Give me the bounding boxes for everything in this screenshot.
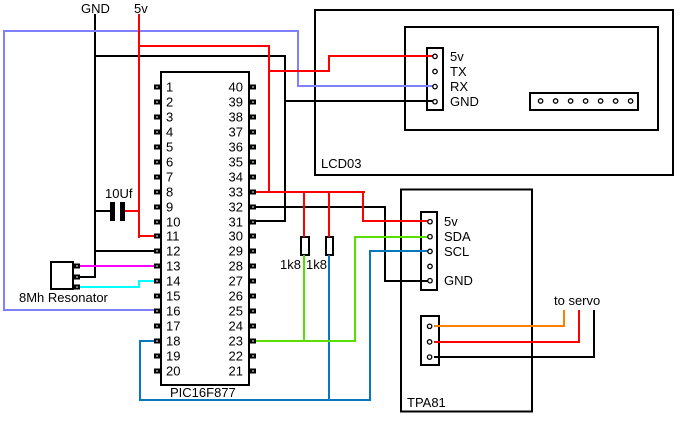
svg-text:3: 3 [166,110,173,125]
PIC pin 6 [155,161,159,164]
wire into TPA81 GND pin [384,280,430,282]
wire resonator pin 1 to PIC pin 13 magenta [79,265,154,267]
LCD03 expansion header holes [538,99,632,103]
PIC pin 12 [155,250,159,253]
wire blue vertical x370 [369,250,371,401]
svg-text:TX: TX [450,64,467,79]
PIC pin 27 [251,280,255,283]
svg-text:PIC16F877: PIC16F877 [170,385,236,400]
svg-text:28: 28 [229,259,243,274]
wire 5v horizontal y46 [138,45,270,47]
PIC pin 18 [155,340,159,343]
svg-text:10: 10 [166,215,180,230]
8Mh resonator X1 body [51,262,73,289]
wire servo connector pin 1 orange vertical riser [563,310,565,327]
TPA81 module box [401,190,532,412]
resonator pin 3 [75,286,79,289]
svg-text:5v: 5v [450,49,464,64]
wire green into TPA81 SDA pin [354,236,430,238]
wire 5v vertical rail from 5v label [138,14,140,238]
svg-text:32: 32 [229,200,243,215]
PIC pin 15 [155,295,159,298]
svg-text:11: 11 [166,229,180,244]
servo connector pin hole 3 [427,355,431,359]
wire 5v vertical x269 [268,45,270,193]
PIC pin 23 [251,340,255,343]
PIC pin 7 [155,176,159,179]
svg-text:17: 17 [166,319,180,334]
svg-text:SDA: SDA [444,229,471,244]
wire RX net vertical x298 [297,30,299,87]
wire RX net into LCD03 RX pin [297,85,434,87]
PIC16F877 chip body U1 [161,72,249,385]
TPA81 5-pin I2C connector [421,212,437,290]
wire PIC pin 32 to TPA81 GND vertical x385 [384,206,386,282]
svg-text:16: 16 [166,304,180,319]
wire resonator pin 3 cyan horizontal [79,286,140,288]
wire green vertical from resistor R1 x304 [303,255,305,342]
wire 5v into LCD03 5v pin [328,55,434,57]
svg-text:14: 14 [166,274,180,289]
wire servo connector pin 3 vertical riser [593,310,595,358]
wire GND to PIC pin 12 [94,250,154,252]
svg-text:18: 18 [166,334,180,349]
wire blue vertical from resistor R2 x329 [328,255,330,401]
resistor R1 1k8 body [301,237,309,255]
LCD03 connector pin hole RX [433,84,437,88]
wire green vertical x356 [354,236,356,342]
PIC pin 38 [251,116,255,119]
PIC pin 14 [155,280,159,283]
svg-text:35: 35 [229,155,243,170]
svg-text:24: 24 [229,319,243,334]
PIC pin 35 [251,161,255,164]
LCD03 board inner box [405,27,658,130]
svg-text:36: 36 [229,140,243,155]
PIC pin 30 [251,235,255,238]
wire 5v to PIC pin 11 [138,235,154,237]
svg-text:LCD03: LCD03 [321,156,361,171]
svg-text:30: 30 [229,229,243,244]
wire 5v vertical x363 [362,191,364,222]
svg-text:31: 31 [229,215,243,230]
wire GND to PIC pin 31 [250,220,286,222]
svg-text:SCL: SCL [444,244,469,259]
svg-text:8Mh Resonator: 8Mh Resonator [19,290,109,305]
LCD03 7-hole expansion header [530,93,638,110]
svg-text:GND: GND [81,1,110,16]
svg-text:2: 2 [166,95,173,110]
wire cyan into PIC pin 14 [138,280,154,282]
PIC pin 17 [155,325,159,328]
PIC pin 24 [251,325,255,328]
PIC pin 26 [251,295,255,298]
svg-text:12: 12 [166,244,180,259]
svg-text:9: 9 [166,200,173,215]
svg-text:25: 25 [229,304,243,319]
svg-text:39: 39 [229,95,243,110]
wire GND to LCD03 GND pin [284,100,434,102]
LCD03 connector pin hole TX [433,69,437,73]
resonator pin 2 [75,276,79,279]
svg-text:1k8: 1k8 [280,257,301,272]
wire blue into TPA81 SCL pin [369,250,430,252]
svg-text:TPA81: TPA81 [407,395,446,410]
wire RX net top horizontal y31 [3,30,299,32]
PIC pin 40 [251,86,255,89]
PIC pin 19 [155,355,159,358]
svg-text:GND: GND [444,273,473,288]
PIC pin 28 [251,265,255,268]
svg-text:GND: GND [450,94,479,109]
svg-text:34: 34 [229,170,243,185]
PIC pin 22 [251,355,255,358]
TPA81 connector pin hole SCL [428,249,432,253]
wire capacitor C1 to 5v rail [125,210,140,212]
wire blue vertical x140 [139,340,141,401]
svg-text:6: 6 [166,155,173,170]
svg-text:15: 15 [166,289,180,304]
PIC pin 31 [251,221,255,224]
wire GND branch vertical x285 [284,55,286,222]
PIC pin 11 [155,235,159,238]
TPA81 connector pin hole 5v [428,220,432,224]
wire cyan vertical step x139 [138,280,140,288]
LCD03 module outer box [315,10,673,175]
svg-text:5: 5 [166,140,173,155]
svg-text:20: 20 [166,364,180,379]
svg-text:29: 29 [229,244,243,259]
wire servo connector pin 2 horizontal [434,341,580,343]
PIC pin 29 [251,250,255,253]
svg-text:1: 1 [166,80,173,95]
LCD03 connector pin hole 5v [433,54,437,58]
svg-text:27: 27 [229,274,243,289]
wire GND horizontal rail y56 [94,55,286,57]
PIC pin 13 [155,265,159,268]
svg-text:5v: 5v [444,214,458,229]
svg-text:7: 7 [166,170,173,185]
PIC pin 36 [251,146,255,149]
wire RX net to PIC pin 16 [3,309,154,311]
PIC pin 10 [155,221,159,224]
wire blue bottom horizontal y400 [139,399,371,401]
PIC pin 1 [155,86,159,89]
PIC pin 9 [155,206,159,209]
svg-text:26: 26 [229,289,243,304]
TPA81 connector pin hole NC [428,264,432,268]
wire 5v vertical step x329 [328,55,330,72]
svg-text:8: 8 [166,185,173,200]
LCD03 4-pin connector J1 [427,48,443,110]
svg-text:37: 37 [229,125,243,140]
PIC pin 5 [155,146,159,149]
svg-text:to servo: to servo [554,293,600,308]
servo connector pin hole 1 [427,324,431,328]
wire servo connector pin 3 horizontal [434,356,595,358]
wire 5v stub to resistor R1 [303,191,305,237]
capacitor C1 10Uf plate 1 [110,202,115,221]
wire RX net far-left vertical x4 [3,30,5,311]
svg-text:10Uf: 10Uf [105,186,133,201]
wire 5v stub to resistor R2 [328,191,330,237]
svg-text:4: 4 [166,125,173,140]
wire 5v horizontal y71 [268,70,330,72]
LCD03 connector pin hole GND [433,100,437,104]
svg-text:21: 21 [229,364,243,379]
svg-text:33: 33 [229,185,243,200]
wire servo connector pin 2 vertical riser [578,310,580,343]
TPA81 connector pin hole GND [428,279,432,283]
PIC pin 4 [155,131,159,134]
PIC pin 32 [251,206,255,209]
PIC pin 34 [251,176,255,179]
PIC pin 3 [155,116,159,119]
resistor R2 1k8 body [326,237,333,255]
wire PIC pin 33 5v horizontal y192 [255,191,365,193]
capacitor C1 10Uf plate 2 [120,202,125,221]
svg-text:22: 22 [229,349,243,364]
wire PIC pin 32 to TPA81 GND horizontal [255,206,386,208]
wire PIC pin 18 blue stub [139,340,154,342]
svg-text:1k8: 1k8 [306,257,327,272]
svg-text:23: 23 [229,334,243,349]
PIC pin 2 [155,101,159,104]
PIC pin 21 [251,370,255,373]
svg-text:13: 13 [166,259,180,274]
PIC pin 16 [155,310,159,313]
servo connector pin hole 2 [427,340,431,344]
wire PIC pin 23 green horizontal y341 [255,340,356,342]
wire servo connector pin 1 orange horizontal [434,325,565,327]
PIC pin 33 [251,191,255,194]
svg-text:40: 40 [229,80,243,95]
PIC pin 25 [251,310,255,313]
wire GND to capacitor C1 [94,210,110,212]
svg-text:5v: 5v [134,1,148,16]
TPA81 connector pin hole SDA [428,235,432,239]
wire 5v into TPA81 5v pin [362,220,430,222]
PIC pin 37 [251,131,255,134]
wire resonator middle pin to GND rail [79,276,96,278]
PIC pin 39 [251,101,255,104]
svg-text:38: 38 [229,110,243,125]
TPA81 3-pin servo connector [421,316,439,365]
PIC pin 20 [155,370,159,373]
wire GND vertical rail from GND label down to resonator [94,14,96,278]
svg-text:19: 19 [166,349,180,364]
resonator pin 1 [75,265,79,268]
svg-text:RX: RX [450,79,468,94]
PIC pin 8 [155,191,159,194]
